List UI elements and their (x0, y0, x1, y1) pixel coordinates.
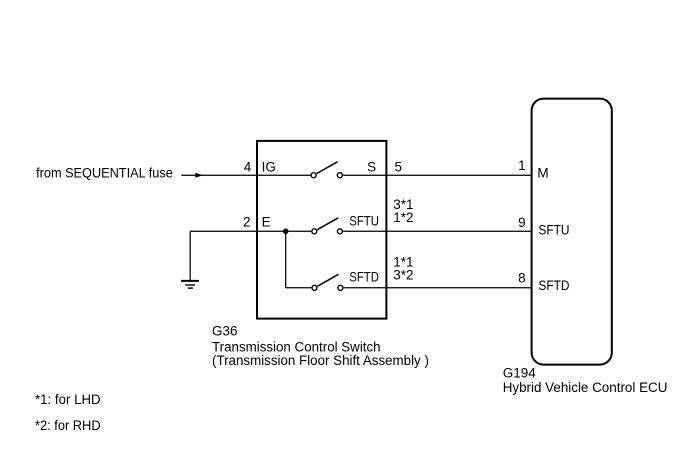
wire: fuse to IG switch contact (181, 174, 310, 176)
wire: ground drop (189, 231, 191, 280)
wire: branch to SFTD contact (286, 287, 312, 289)
wire: ground to E contact (190, 230, 311, 232)
wire: SFTD contact to ECU pin 8 (344, 287, 532, 289)
svg-text:1*2: 1*2 (393, 210, 413, 225)
svg-text:3*2: 3*2 (393, 268, 413, 283)
svg-text:M: M (537, 166, 548, 181)
svg-text:4: 4 (244, 159, 252, 174)
ECU box G194 (Hybrid Vehicle Control ECU) (532, 99, 612, 365)
switch E-SFTU left contact (312, 229, 317, 234)
svg-text:from SEQUENTIAL fuse: from SEQUENTIAL fuse (36, 166, 173, 181)
svg-text:(Transmission Floor Shift Asse: (Transmission Floor Shift Assembly ) (212, 353, 429, 368)
svg-text:9: 9 (518, 215, 526, 230)
svg-text:SFTU: SFTU (349, 213, 379, 228)
switch IG-S right contact (337, 173, 342, 178)
ground (181, 280, 199, 282)
svg-text:SFTD: SFTD (538, 278, 569, 293)
svg-text:E: E (262, 215, 271, 230)
arrowhead on fuse wire (195, 173, 203, 178)
switch E-SFTD lever (318, 274, 339, 286)
svg-text:SFTD: SFTD (349, 270, 379, 285)
svg-text:IG: IG (262, 159, 276, 174)
svg-text:1: 1 (518, 158, 526, 173)
svg-text:*1: for LHD: *1: for LHD (35, 392, 101, 407)
svg-text:SFTU: SFTU (538, 222, 569, 237)
switch IG-S left contact (311, 173, 316, 178)
svg-text:5: 5 (395, 159, 403, 174)
svg-text:8: 8 (518, 270, 526, 285)
svg-text:G36: G36 (212, 324, 238, 339)
switch E-SFTD left contact (312, 285, 317, 290)
junction node on E wire (283, 229, 289, 235)
switch IG-S lever (317, 162, 338, 174)
wire: SFTU contact to ECU pin 9 (343, 230, 531, 232)
switch E-SFTU right contact (337, 229, 342, 234)
switch E-SFTD right contact (338, 285, 343, 290)
wire: vertical branch from junction to SFTD row (285, 231, 287, 287)
svg-text:G194: G194 (503, 366, 537, 381)
wire: S contact to ECU pin 1 (343, 174, 531, 176)
svg-text:*2: for RHD: *2: for RHD (35, 418, 101, 433)
switch E-SFTU lever (317, 218, 338, 230)
svg-text:2: 2 (243, 215, 251, 230)
connector box G36 (Transmission Control Switch) (257, 141, 386, 319)
svg-text:Hybrid Vehicle Control ECU: Hybrid Vehicle Control ECU (503, 380, 668, 395)
svg-text:S: S (367, 159, 376, 174)
